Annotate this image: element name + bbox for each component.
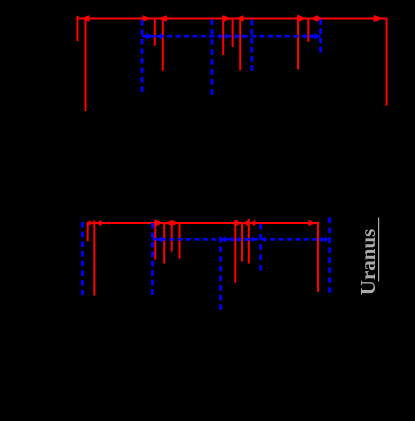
blue arrow right-apex near tick C [147,33,154,39]
red arrow right-apex into tick m4 [156,220,164,226]
red tick D [162,18,164,71]
red arrow left-apex back to tick I [310,15,317,21]
red tick m7 [234,220,236,283]
blue tick top 1 [141,20,144,92]
blue arrow right-apex at blue band end (middle) [325,236,329,242]
blue arrow right-apex into tick E [219,33,223,39]
red tick m5 [171,222,173,252]
blue tick mid 3 [219,237,222,310]
blue band line (top, dashed) [142,35,321,38]
blue arrow right-apex into tick m7 [231,236,234,242]
red tick I [307,18,309,42]
red arrow right-apex into tick m6 [172,220,179,226]
red arrow left-apex back to tick F [236,15,244,21]
red tick G [239,18,241,70]
blue tick top 3 [250,20,253,71]
red tick B [85,18,87,112]
red tick m9 [248,219,250,264]
red arrow right-apex at band end (top) [374,15,385,22]
blue tick mid 5 [328,218,331,293]
blue tick top 4 [319,19,322,52]
blue arrow right-apex at blue band end (top) [314,33,320,39]
red arrow left-apex back to tick m2 [96,220,102,226]
blue arrow left-apex back to tick G [241,33,244,39]
blue tick mid 2 [151,223,154,295]
blue tick mid 1 [81,222,84,295]
blue arrow left-apex near tick C [156,33,162,39]
red tick A [77,16,79,41]
red arrow right-apex into tick m8 [236,220,241,226]
red tick F [232,18,234,47]
red arrow right-apex at band end (middle) [308,220,316,226]
blue band line (middle, dashed) [153,238,329,241]
red tick H [297,15,299,70]
red tick m8 [241,222,243,262]
red arrow left-apex back to tick m8 [243,220,248,226]
blue arrow left-apex back to tick I [309,33,312,39]
red arrow right-apex into tick m2 [89,220,94,226]
blue arrow right-apex into tick G [235,33,239,39]
red arrow right-apex at x=321 [317,15,321,21]
red tick J [386,18,388,106]
blue arrow left-apex after tick mid4 [262,236,266,242]
underline of Uranus [378,218,380,282]
red tick m2 [93,220,95,295]
red tick m3 [154,220,156,260]
red arrow right-apex into tick I [299,15,306,21]
blue arrow left-apex back to tick m7 [236,236,239,242]
red arrow left-apex at band start (top) [80,15,90,21]
red tick E [222,16,224,55]
blue arrow left-apex back to tick m9 [250,236,253,242]
red arrow right-apex into tick F [224,15,232,21]
blue arrow right-apex into tick I [304,33,307,39]
red arrow right-apex into tick C [143,15,152,21]
blue arrow left-apex at blue band start (middle) [156,236,163,242]
blue arrow left-apex back to tick E [224,33,228,39]
red band line (middle) [88,222,318,224]
red band line (top) [78,18,387,20]
svg-text:Uranus: Uranus [356,229,380,296]
blue arrow right-apex into tick m9 [245,236,248,242]
red tick m6 [179,222,181,259]
red tick m4 [163,222,165,264]
red arrow left-apex from tick D side [157,15,167,21]
red tick C [154,18,156,46]
red tick m10 [317,222,319,292]
red tick m1 [87,222,89,241]
blue tick top 2 [211,19,214,94]
blue tick mid 4 [259,224,262,271]
red arrow left-apex back to tick m4 [165,220,172,226]
red arrow left-apex at tick m9 [250,220,255,226]
blue arrow right-apex after tick mid3 [224,236,230,242]
blue arrow left-apex at red end tick [319,236,322,242]
